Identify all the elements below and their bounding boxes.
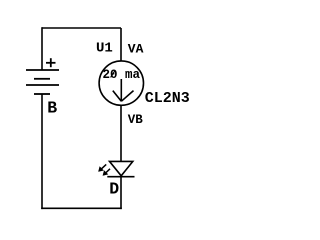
battery B [26,58,59,94]
svg-text:B: B [47,98,57,117]
svg-text:VA: VA [128,42,144,57]
wire left lower vertical [41,94,43,209]
svg-text:U1: U1 [96,41,113,57]
wire right lower vertical [120,177,122,209]
wire top horizontal [42,27,121,29]
current source U1 circle [99,61,143,105]
wire source to top corner [120,28,122,61]
LED D [98,161,134,176]
svg-text:VB: VB [128,113,144,127]
wire LED anode to source [120,105,122,161]
wire left upper vertical [41,27,43,70]
current source arrow [113,79,134,101]
current source value 20 ma [103,68,141,82]
svg-text:CL2N3: CL2N3 [145,90,190,107]
svg-text:D: D [109,180,119,199]
wire bottom horizontal [41,207,122,209]
